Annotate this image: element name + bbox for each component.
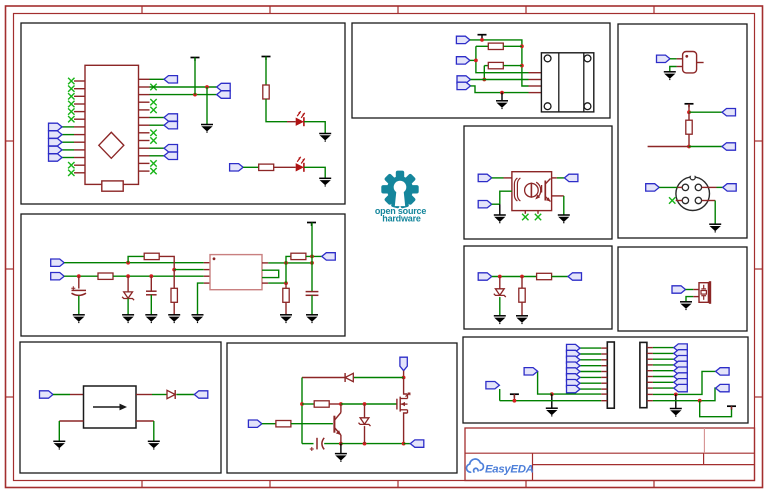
frame zone tick top x=142 (141, 6, 143, 14)
ground below D5 (494, 316, 506, 324)
P1 pin 3 (601, 359, 607, 361)
resistor R8 (314, 401, 329, 407)
no-connect X on U1 right pin 4 (150, 99, 156, 105)
VCC symbol P1 (510, 394, 519, 398)
junction emitter / ground (339, 442, 343, 446)
PS1 left pin 1 (204, 262, 210, 264)
wire P2 pin 4 (653, 364, 674, 366)
wire R6 to flag (306, 255, 322, 257)
VCC symbol P2 (727, 406, 736, 410)
wire up to R6 (286, 256, 291, 263)
wire junction up to R3 (128, 256, 144, 262)
no-connect X on U1 right pin 9 (150, 137, 156, 143)
net flag P1 pin 1 (567, 344, 581, 351)
wire to U1 left pin 8 (62, 134, 74, 136)
P2 pin 5 (647, 370, 653, 372)
ground below D1 (122, 315, 134, 323)
bridge module section box (20, 342, 221, 473)
wire up to flag (499, 389, 501, 401)
wire P1 pin 1 (580, 347, 601, 349)
net flag coil drive 2 (456, 57, 470, 64)
wire R7 to ground (285, 302, 287, 314)
wire R9 to Q1 base (291, 423, 333, 425)
net flag prot in (478, 273, 492, 280)
U1 right pin 2 (139, 86, 150, 88)
circular connector J1 body (676, 177, 710, 211)
wire P2 pin 6 (653, 376, 674, 378)
P1 pin 9 (601, 393, 607, 395)
P1 pin 4 (601, 365, 607, 367)
M1 arrow mark (93, 404, 127, 411)
net flag P2 pin 4 (674, 361, 688, 368)
net flag far on U1 right pin 3 (217, 91, 231, 98)
buzzer section box (618, 247, 747, 331)
power supply section box (21, 214, 345, 336)
wire rail to R8 (302, 403, 314, 405)
ground below R7 (280, 315, 292, 323)
ground below C3 (306, 315, 318, 323)
P1 pin 8 (601, 388, 607, 390)
K1 pin 3 (529, 85, 542, 87)
frame zone tick right y=269 (755, 268, 763, 270)
wire VCC down to pin3 wire (194, 58, 196, 95)
net flag xtal (657, 55, 671, 62)
net flag on U1 right pin 1 (164, 76, 178, 83)
P1 pin 7 (601, 382, 607, 384)
wire node to D3 (354, 377, 404, 379)
wire R4 to module pin3 (113, 275, 204, 277)
frame zone tick left y=141 (6, 140, 14, 142)
U1 left pin 9 (74, 141, 85, 143)
D5 lead top (499, 277, 501, 289)
P2 pin 6 (647, 376, 653, 378)
J1 pin 1 hole (682, 184, 688, 190)
frame zone tick right y=141 (755, 140, 763, 142)
junction P2 ground (674, 393, 678, 397)
wire C1 to ground (78, 296, 80, 315)
junction R3 / pin2 (172, 268, 176, 272)
K1 left rail line (558, 53, 560, 112)
frame zone tick top x=654 (653, 6, 655, 14)
U1 right pin 8 (139, 132, 150, 134)
K1 mounting hole bottom-left (544, 103, 551, 110)
wire M1 to D2 (152, 394, 167, 396)
net flag on U1 right pin 7 (164, 122, 178, 129)
junction C1 (77, 274, 81, 278)
P2 pin 4 (647, 364, 653, 366)
wire P2 pin 10 (653, 388, 716, 401)
MCU U1 body (85, 65, 139, 184)
wire flag4 to K1 pin4 (471, 86, 529, 93)
U1 right pin 12 (139, 162, 150, 164)
ground below R5 (168, 315, 180, 323)
svg-text:EasyEDA: EasyEDA (485, 464, 534, 476)
junction C2 (149, 274, 153, 278)
lead VCC stem (731, 406, 733, 409)
junction D1 (126, 274, 130, 278)
net flag P1 pin 6 (567, 374, 581, 381)
wire junction to ground (551, 394, 553, 408)
junction R13 (520, 275, 524, 279)
wire flag3 to K1 pin2 (471, 79, 529, 81)
wire flag to R12 (492, 276, 537, 278)
U1 right pin 5 (139, 109, 150, 111)
J1 pin 2 hole (695, 184, 701, 190)
B1 right bar (709, 281, 711, 304)
U1 left pin 10 (74, 149, 85, 151)
junction ground branch (500, 91, 504, 95)
ground below C2 (145, 315, 157, 323)
net flag contact 1 (457, 76, 471, 83)
wire R8 to collector node (329, 403, 341, 405)
wire to U1 left pin 10 (62, 149, 74, 151)
no-connect X on U1 left pin 5 (68, 108, 74, 114)
wire flag to B1 (686, 289, 694, 291)
M1 ground lead right (136, 420, 154, 422)
frame zone tick left y=397 (6, 396, 14, 398)
D4 lead top (364, 404, 366, 418)
junction VCC node (310, 261, 314, 265)
wire flag to J1 pin1 (659, 186, 677, 188)
PS1 right pin 2 (262, 282, 268, 284)
C1 positive lead (78, 276, 80, 288)
wire U1 right pin6 to flag (150, 117, 165, 119)
U2 pin3 lead (552, 195, 564, 197)
J1 pin2 lead (702, 186, 717, 188)
net flag load (vertical) (400, 357, 407, 371)
optocoupler section box (464, 126, 612, 239)
net flag on U1 left pin 11 (49, 154, 63, 161)
wire to U1 left pin 7 (62, 126, 74, 128)
EasyEDA logo cloud icon (467, 459, 484, 472)
K1 mounting hole top-right (584, 55, 591, 62)
wire up into U2 pin2 (500, 191, 512, 204)
connectors section box (618, 24, 747, 238)
P2 pin 3 (647, 358, 653, 360)
LED1 anode lead (287, 121, 296, 123)
wire P1 pin 4 (580, 365, 601, 367)
net flag P1 pin 3 (567, 356, 581, 363)
wire R11 left branch down (483, 66, 485, 80)
net flag return (410, 440, 424, 447)
module M1 input lead (70, 394, 84, 396)
wire C3 to ground (311, 295, 313, 314)
P2 pin 1 (647, 347, 653, 349)
wire flag to R2 (243, 166, 259, 168)
wire U1 right pin2 to far flag (150, 86, 217, 88)
ground below J1 (709, 224, 721, 232)
U2 bottom pin b (537, 211, 539, 214)
wire D2 to flag (176, 394, 194, 396)
no-connect X on U1 left pin 1 (68, 78, 74, 84)
resistor R2 (259, 164, 274, 170)
wire P1 pin 6 (580, 376, 601, 378)
wire R1 to LED1 (266, 99, 287, 122)
wire U1 right pin10 to flag (150, 147, 165, 149)
P1 pin 5 (601, 371, 607, 373)
J1 pin4 lead (702, 200, 716, 202)
K1 mounting hole bottom-right (584, 103, 591, 110)
J1 pin3 lead (676, 200, 683, 202)
bottom rail wire right (341, 443, 404, 445)
capacitor C2 (146, 291, 157, 295)
wire node2 to flag (689, 146, 722, 148)
zener diode D4 (359, 418, 371, 426)
ground below M1 right (148, 441, 160, 449)
junction flag / D3 / Q2 drain (402, 376, 406, 380)
ground below LED1 (319, 134, 331, 142)
wire U2 pin4 to flag (557, 177, 565, 179)
J1 pin1 lead (677, 186, 682, 188)
junction R11 right (520, 64, 524, 68)
junction on pin3 wire (193, 93, 197, 97)
P2 pin 9 (647, 393, 653, 395)
resistor R7 (283, 288, 289, 302)
net flag divider top (722, 109, 736, 116)
no-connect X on U1 left pin 6 (68, 116, 74, 122)
VCC symbol above U1 (191, 58, 200, 62)
wire U1 right pin1 to flag (150, 78, 165, 80)
U1 left pin 1 (74, 80, 85, 82)
junction collector (339, 402, 343, 406)
wire J1 pin2 to flag (717, 186, 723, 188)
frame zone tick left y=269 (6, 268, 14, 270)
ground left of U2 (494, 215, 506, 223)
U1 left pin 7 (74, 126, 85, 128)
U1 right pin 9 (139, 140, 150, 142)
K1 pin 4 (529, 92, 542, 94)
net flag J1 right (723, 184, 737, 191)
polarized capacitor C1 (71, 286, 86, 295)
wire U1 right pin11 to flag (150, 155, 165, 157)
junction source / flag (402, 442, 406, 446)
U1 left pin 11 (74, 157, 85, 159)
VCC symbol relay (478, 35, 487, 39)
net flag VIN+ (51, 259, 64, 266)
wire R10 to vertical (503, 45, 522, 47)
net flag coil drive 1 (456, 36, 470, 43)
junction VCC P1 (513, 399, 517, 403)
wire VCC to R1 (265, 57, 267, 86)
MCU U1 bottom tab (102, 181, 123, 191)
transistor Q1 (NPN) (334, 413, 341, 436)
net flag divider mid (722, 143, 736, 150)
resistor R14 (686, 120, 692, 134)
U2 inner input bracket 2 (517, 178, 520, 201)
wire node to flag (689, 111, 722, 113)
wire LED1 to ground (304, 122, 325, 133)
U1 left pin 2 (74, 88, 85, 90)
net flag P2 pin 9 (716, 368, 730, 375)
MCU U1 diamond mark (99, 132, 124, 158)
net flag on U1 left pin 9 (49, 139, 63, 146)
U1 right pin 1 (139, 78, 150, 80)
PS1 left pin 4 (204, 282, 210, 284)
Y1 pin2 lead (677, 66, 683, 68)
wire left branch to K1 pin1 (476, 46, 529, 72)
P2 pin 10 (647, 400, 653, 402)
wire to ground right (153, 421, 155, 441)
net flag P1 pin 2 (567, 350, 581, 357)
U1 left pin 3 (74, 95, 85, 97)
resistor R13 (519, 288, 525, 302)
frame zone tick bottom x=270 (269, 481, 271, 488)
no-connect X on U2 pin b (535, 214, 541, 220)
wire collector node to Q2 gate (341, 403, 397, 405)
Q2 drain lead (404, 378, 408, 395)
U2 bottom pin a (524, 211, 526, 214)
wire to right flag (404, 443, 411, 445)
wire to ground left (58, 421, 60, 441)
U1 right pin 10 (139, 147, 150, 149)
R13 lead top (521, 277, 523, 289)
net flag P1 pin 7 (567, 380, 581, 387)
net flag P1 pin 8 (567, 385, 581, 392)
junction VIN+ / R3 (126, 261, 130, 265)
U1 left pin 6 (74, 118, 85, 120)
left rail wire (301, 378, 303, 444)
Q1 collector lead (340, 404, 342, 413)
wire emitter junction to ground (340, 444, 342, 454)
Y1 pin1 mark (685, 55, 688, 58)
wire B1 pin2 to ground (686, 297, 693, 302)
U1 right pin 3 (139, 94, 150, 96)
wire junction to ground (501, 93, 503, 101)
wire flag1 to K1 pin3 (470, 40, 529, 86)
net flag P2 pin 10 (716, 384, 730, 391)
bottom rail wire mid (324, 443, 341, 445)
junction P1 ground (550, 392, 554, 396)
U2 pin4 lead (552, 177, 557, 179)
frame zone tick bottom x=398 (397, 481, 399, 488)
junction R6 (284, 261, 288, 265)
title block divider column logo cell (532, 453, 534, 480)
wire P2 pin 2 (653, 352, 674, 354)
title block divider column mid row (703, 453, 705, 464)
frame zone tick top x=398 (397, 6, 399, 14)
K1 right rail line (583, 53, 585, 112)
junction left rail / R8 (300, 402, 304, 406)
wire P1 pin 8 (580, 388, 601, 390)
P2 pin 8 (647, 387, 653, 389)
net flag J1 left (646, 184, 660, 191)
wire junction to flag (538, 371, 552, 394)
no-connect X on U1 left pin 13 (68, 170, 74, 176)
net flag on U1 left pin 7 (49, 123, 63, 130)
net flag opto out (564, 174, 578, 181)
junction R10 right (520, 44, 524, 48)
net flag DC out (194, 391, 208, 398)
J1 pin 3 hole (682, 197, 688, 203)
wire to R11 (484, 65, 488, 67)
wire P1 pin 10 (500, 400, 602, 402)
net flag drive input (248, 420, 262, 427)
net flag for LED2 (230, 164, 244, 171)
wire PS1 pin2 to R7 (268, 282, 286, 284)
wire down to ground (499, 204, 501, 214)
Q1 emitter lead (340, 435, 342, 444)
VCC symbol divider (685, 104, 694, 108)
zener diode D5 (494, 289, 506, 297)
ground P1 (546, 408, 558, 416)
P2 pin 7 (647, 381, 653, 383)
net flag on U1 right pin 6 (164, 114, 178, 121)
wire R11 to vertical (503, 65, 522, 67)
K1 pin 1 (529, 72, 542, 74)
wire to R7 (285, 283, 287, 288)
resistor R9 (276, 421, 291, 427)
no-connect X on J1 pin3 (669, 197, 675, 203)
wire VIN+ to module pin1 (64, 262, 204, 264)
wire flag to Y1 (670, 58, 677, 60)
open source hardware gear logo (381, 171, 418, 209)
net flag P2 pin 3 (674, 356, 688, 363)
wire J1 pin4 to ground (714, 201, 716, 224)
lead R14 to node2 (688, 134, 690, 146)
net flag P1 pin 4 (567, 362, 581, 369)
wire junction to VCC (700, 401, 732, 417)
zener diode D1 (122, 292, 134, 300)
resistor R3 (144, 253, 159, 259)
wire P1 pin 9 (552, 393, 601, 395)
K1 mounting hole top-left (544, 55, 551, 62)
wire P2 pin 8 (653, 387, 674, 389)
B1 pin1 lead (693, 289, 699, 291)
U2 output transistor (542, 179, 551, 202)
net flag on U1 right pin 10 (164, 145, 178, 152)
wire node2 left (648, 146, 689, 148)
resistor R1 (263, 85, 269, 99)
ground below LED2 (319, 178, 331, 186)
MCU section box (21, 23, 345, 204)
wire P2 pin 3 (653, 358, 674, 360)
PS1 pin1 mark (213, 257, 216, 260)
pin header P2 body (640, 342, 647, 407)
U1 right pin 6 (139, 117, 150, 119)
ground below R13 (516, 316, 528, 324)
protection section box (464, 246, 612, 329)
net flag on U1 left pin 8 (49, 131, 63, 138)
ground in relay section (496, 101, 508, 109)
driver transistor section box (227, 343, 457, 473)
LED LED1 (296, 111, 305, 126)
wire D5 to ground (499, 297, 501, 315)
U1 left pin 12 (74, 164, 85, 166)
ground below Q1 emitter (335, 454, 347, 462)
U1 left pin 4 (74, 103, 85, 105)
wire flag to U2 pin1 (492, 177, 504, 179)
wire PS1 out to VCC node (268, 262, 312, 264)
wire R2 to LED2 (274, 166, 296, 168)
junction flag2 (474, 59, 478, 63)
U2 sensor arc arrow (536, 182, 541, 198)
svg-text:hardware: hardware (382, 213, 421, 223)
wire P1 pin 3 (580, 359, 601, 361)
U1 right pin 7 (139, 124, 150, 126)
feedback loop wire (262, 270, 279, 277)
frame zone tick bottom x=654 (653, 481, 655, 488)
Y1 pin3 lead (697, 62, 704, 64)
Q2 source lead (404, 413, 408, 444)
junction zener D4 (363, 402, 367, 406)
junction R11 / contact wire (482, 78, 486, 82)
K1 pin 2 (529, 79, 542, 81)
wire U1 right pin7 to flag (150, 124, 165, 126)
wire P1 pin 2 (580, 353, 601, 355)
no-connect X on U1 right pin 13 (150, 168, 156, 174)
P2 pin 2 (647, 352, 653, 354)
frame zone tick right y=397 (755, 396, 763, 398)
